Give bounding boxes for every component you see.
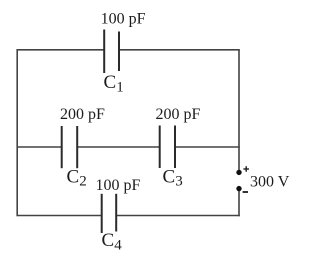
capacitor C4 plates — [102, 194, 117, 233]
label: plus sign — [243, 166, 249, 172]
wire: bottom side, left of C4 — [17, 215, 101, 217]
wire: bottom side, right of C4 — [116, 215, 240, 217]
svg-text:300 V: 300 V — [250, 173, 290, 190]
capacitor C3 plates — [160, 126, 175, 169]
wire: middle branch, right of C3 — [175, 146, 240, 148]
svg-text:200 pF: 200 pF — [60, 106, 105, 123]
node: negative battery terminal dot — [236, 186, 241, 191]
wire: right side vertical upper (to + terminal) — [238, 50, 240, 170]
wire: middle branch, left of C2 — [17, 146, 61, 148]
svg-text:100 pF: 100 pF — [96, 177, 141, 194]
label: minus sign — [243, 191, 248, 193]
wire: right side vertical lower (from - terminal) — [238, 191, 240, 217]
capacitor C1 plates — [104, 30, 119, 74]
capacitor C2 plates — [62, 126, 77, 168]
svg-text:100 pF: 100 pF — [101, 11, 146, 28]
wire: middle branch, between C2 and C3 — [77, 146, 159, 148]
wire: left side vertical — [16, 49, 18, 216]
svg-text:200 pF: 200 pF — [156, 106, 201, 123]
wire: top side, right of C1 — [119, 49, 240, 51]
node: positive battery terminal dot — [236, 170, 241, 175]
wire: top side, left of C1 — [17, 49, 104, 51]
